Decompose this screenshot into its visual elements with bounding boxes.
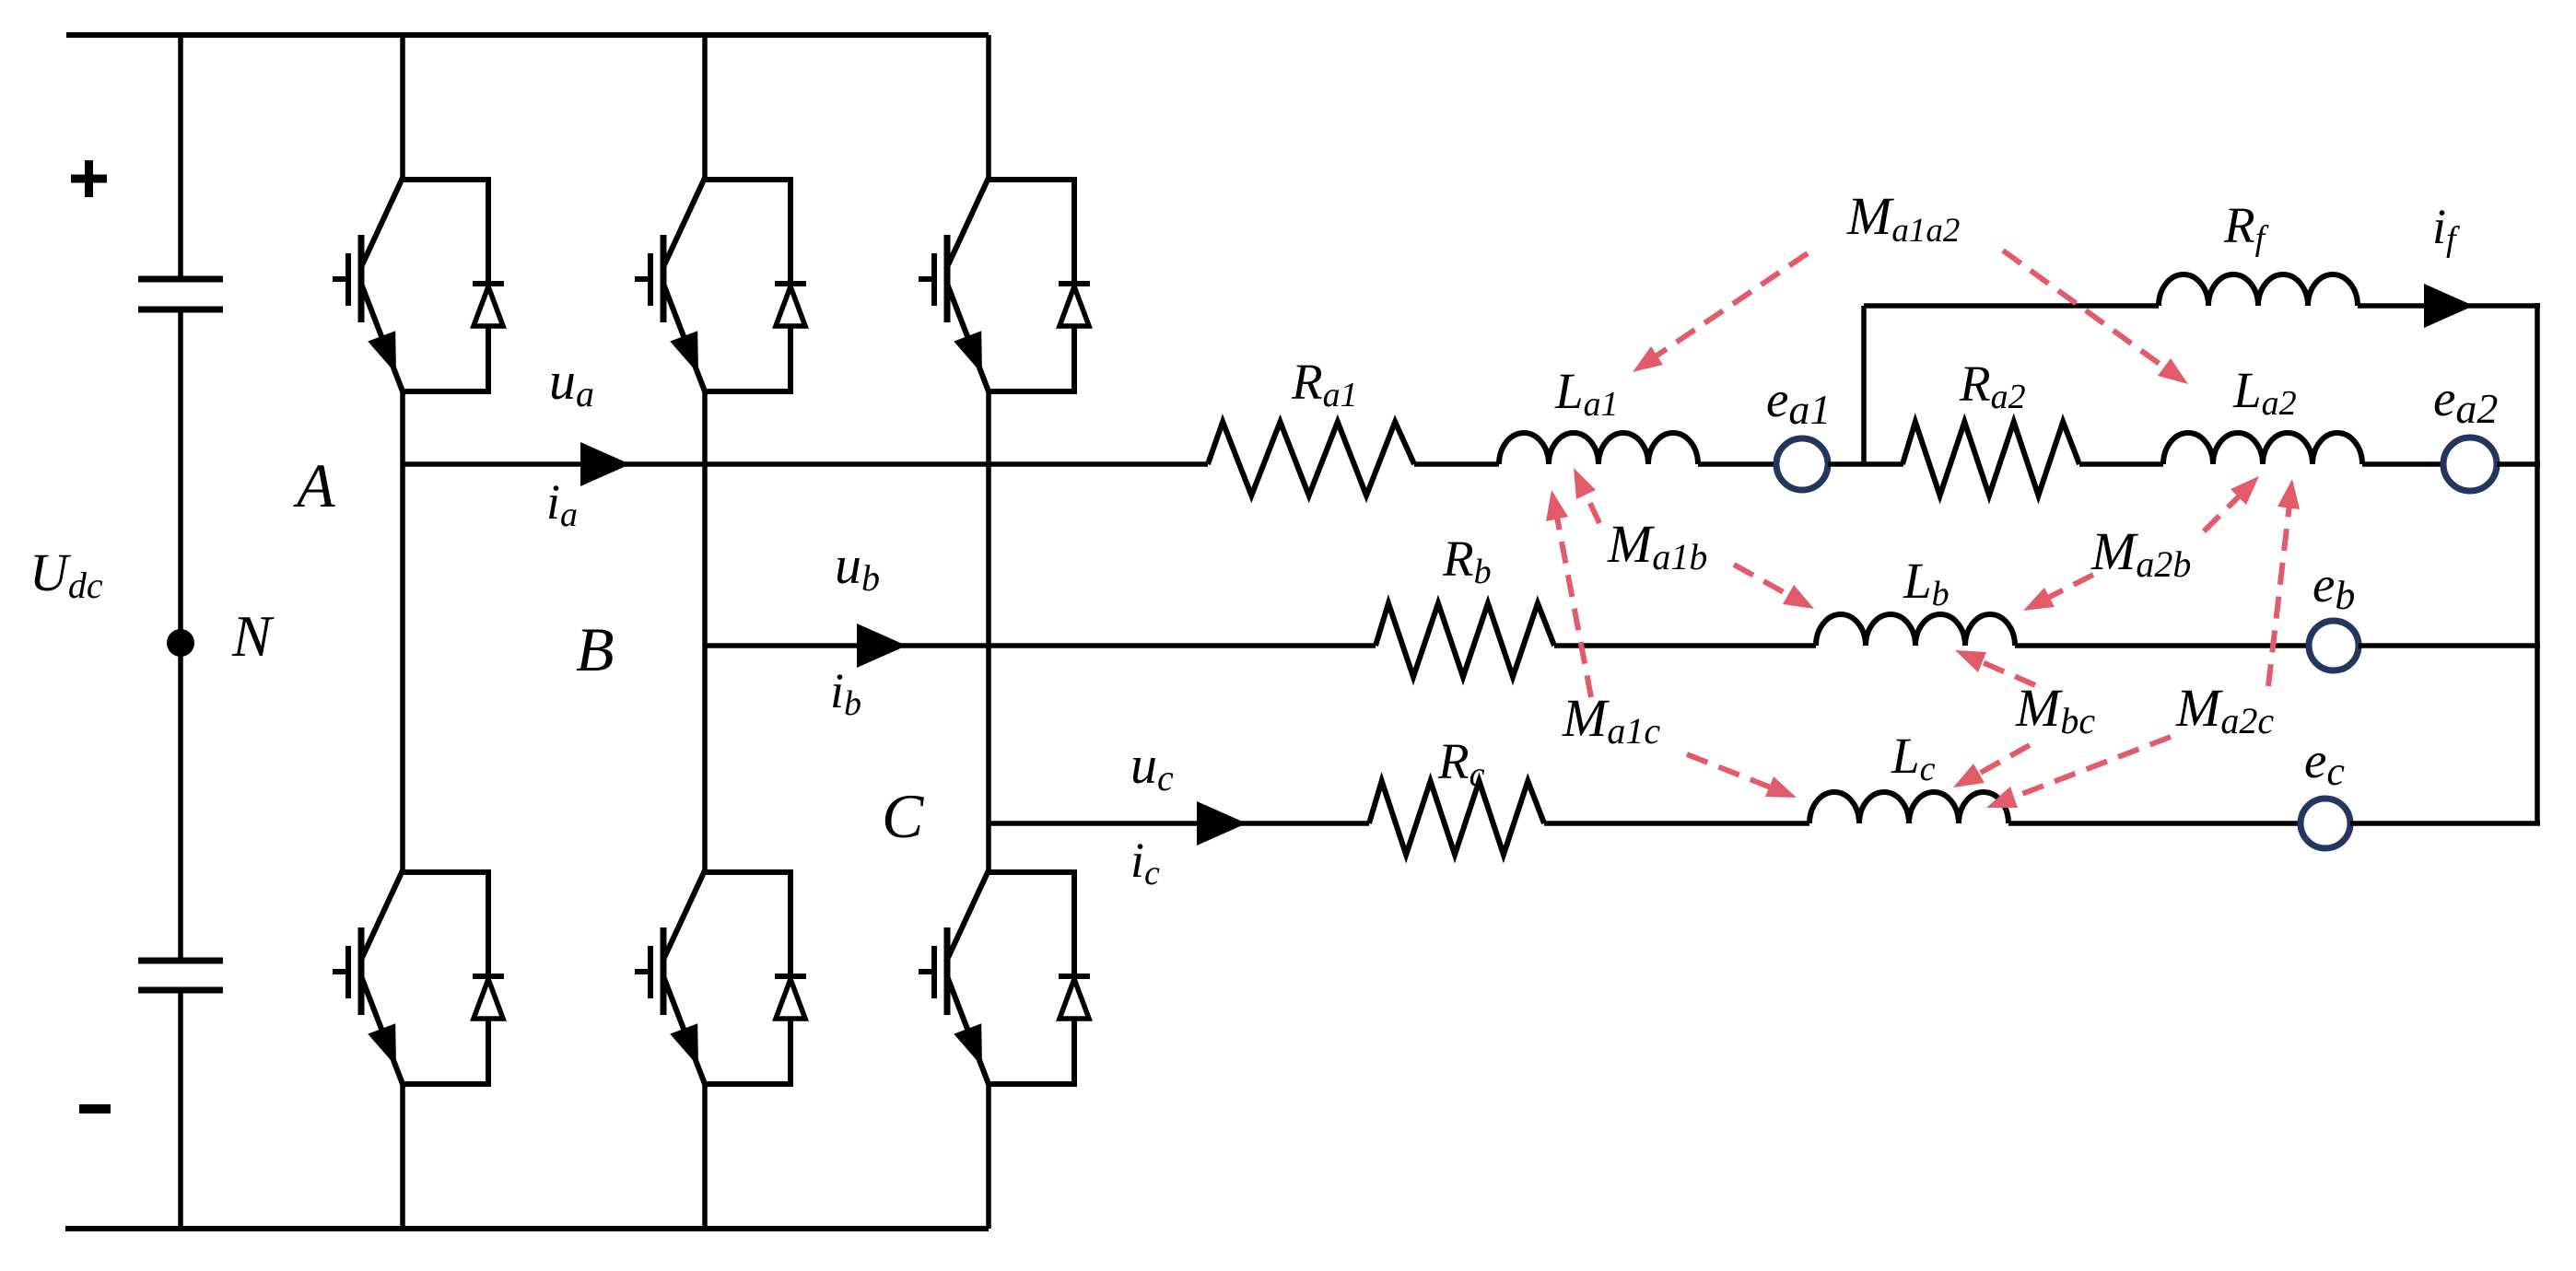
label + (DC positive)	[71, 160, 107, 197]
wire phase A mid1	[1414, 461, 1499, 467]
mutual arrow Ma1b to La1	[1574, 468, 1599, 523]
transistor Q6 (lower IGBT leg 3)	[919, 869, 1090, 1087]
label ua	[549, 351, 594, 414]
wire bottom DC bus	[65, 1226, 989, 1231]
wire DC link upper	[178, 32, 183, 278]
label ec	[2304, 732, 2345, 794]
label La1	[1554, 363, 1619, 424]
wire phase B mid	[1554, 643, 1816, 648]
arrow ic (phase C current)	[1197, 801, 1247, 845]
wire phase A mid4	[2079, 461, 2163, 467]
label La2	[2232, 362, 2297, 423]
wire top DC bus	[66, 32, 989, 38]
wire phase C right2	[2350, 821, 2540, 826]
node A label	[293, 450, 335, 520]
svg-text:N: N	[231, 603, 275, 669]
transistor Q5 (lower IGBT leg 2)	[635, 869, 806, 1087]
label Lb	[1903, 553, 1950, 613]
node C label	[882, 781, 924, 851]
wire phase C mid	[1544, 821, 1809, 826]
wire phase A left	[403, 461, 1208, 467]
label Ma2b	[2090, 521, 2191, 585]
wire phase C right1	[2008, 821, 2301, 826]
label ea1	[1766, 371, 1831, 433]
wire leg3 collector drop	[986, 35, 991, 181]
label ea2	[2433, 370, 2498, 432]
wire leg2 collector drop	[702, 35, 708, 181]
wire leg2 emitter to bus	[702, 1082, 708, 1229]
arrow ia (phase A current)	[580, 442, 630, 486]
label Rf	[2223, 197, 2269, 258]
source ea2 (back-EMF node)	[2443, 437, 2497, 491]
label N	[231, 603, 275, 669]
label Ra2	[1959, 356, 2026, 416]
wire phase A mid5	[2362, 461, 2443, 467]
mutual arrow Ma2c to La2	[2268, 479, 2300, 686]
source eb (back-EMF node)	[2309, 621, 2359, 670]
label Ma1c	[1562, 688, 1660, 752]
wire field branch horizontal	[1864, 303, 2159, 309]
label Ma1a2	[1846, 186, 1960, 250]
label Ma1b	[1607, 514, 1707, 577]
label Lc	[1891, 728, 1936, 788]
arrow if (field current)	[2424, 284, 2474, 328]
mutual arrow Ma1a2 to La2	[2003, 251, 2188, 384]
svg-text:A: A	[293, 450, 335, 520]
transistor Q4 (lower IGBT leg 1)	[333, 869, 504, 1087]
node B label	[576, 614, 615, 684]
wire DC link lower	[178, 991, 183, 1229]
wire leg1 middle	[400, 390, 405, 874]
node N junction dot	[167, 629, 194, 657]
transistor Q3 (upper IGBT leg 3)	[919, 177, 1090, 394]
wire right vertical bus	[2535, 303, 2540, 823]
label ia	[546, 474, 578, 534]
label Udc	[29, 542, 103, 606]
inductor La1	[1499, 433, 1698, 464]
source ec (back-EMF node)	[2301, 799, 2350, 848]
wire phase B left	[705, 643, 1376, 648]
resistor Ra1	[1208, 422, 1414, 496]
resistor Rf	[2159, 274, 2358, 306]
inductor Lc	[1809, 792, 2008, 823]
wire leg2 middle	[702, 390, 708, 874]
transistor Q2 (upper IGBT leg 2)	[635, 177, 806, 394]
svg-text:C: C	[882, 781, 924, 851]
mutual arrow Ma1a2 to La1	[1633, 253, 1808, 372]
mutual arrow Ma2c to Lc	[1986, 737, 2171, 808]
resistor Rb	[1376, 603, 1554, 677]
mutual arrow Ma2b to Lb	[2023, 575, 2093, 611]
wire phase A mid2	[1698, 461, 1777, 467]
label - (DC negative)	[79, 1104, 111, 1114]
wire leg1 emitter to bus	[400, 1082, 405, 1229]
wire leg3 middle	[986, 390, 991, 874]
label if	[2432, 199, 2460, 259]
mutual arrow Ma1c to Lc	[1687, 754, 1797, 798]
label Rb	[1442, 531, 1492, 591]
label Mbc	[2015, 678, 2095, 741]
node field-branch junction vertical	[1861, 306, 1867, 464]
wire phase C left	[989, 821, 1369, 826]
label eb	[2313, 556, 2355, 618]
wire DC link middle	[178, 310, 183, 960]
arrow ib (phase B current)	[857, 624, 907, 668]
capacitor C2	[138, 961, 223, 990]
transistor Q1 (upper IGBT leg 1)	[333, 177, 504, 394]
label ic	[1130, 833, 1160, 892]
wire phase B right1	[2015, 643, 2309, 648]
mutual arrow Ma1b to Lb	[1734, 565, 1814, 609]
label Rc	[1437, 733, 1485, 794]
wire phase A right	[2497, 461, 2540, 467]
inductor Lb	[1816, 614, 2015, 646]
wire leg3 emitter to bus	[986, 1082, 991, 1229]
label uc	[1130, 735, 1174, 799]
label Ra1	[1291, 354, 1358, 414]
label ib	[830, 663, 861, 723]
mutual arrow Mbc to Lb	[1955, 650, 2035, 685]
label Ma2c	[2175, 678, 2274, 741]
label ub	[835, 535, 880, 599]
mutual arrow Ma1c to La1	[1546, 490, 1591, 697]
resistor Ra2	[1903, 422, 2079, 496]
wire field branch right	[2358, 303, 2540, 309]
wire leg1 collector drop	[400, 35, 405, 181]
capacitor C1	[138, 279, 223, 309]
wire phase A mid3	[1828, 461, 1903, 467]
inductor La2	[2163, 433, 2362, 464]
mutual arrow Mbc to Lc	[1953, 745, 2030, 787]
mutual arrow Ma2b to La2	[2204, 476, 2259, 531]
wire phase B right2	[2359, 643, 2540, 648]
source ea1 (back-EMF node)	[1776, 438, 1828, 490]
svg-text:B: B	[576, 614, 615, 684]
resistor Rc	[1369, 781, 1544, 855]
